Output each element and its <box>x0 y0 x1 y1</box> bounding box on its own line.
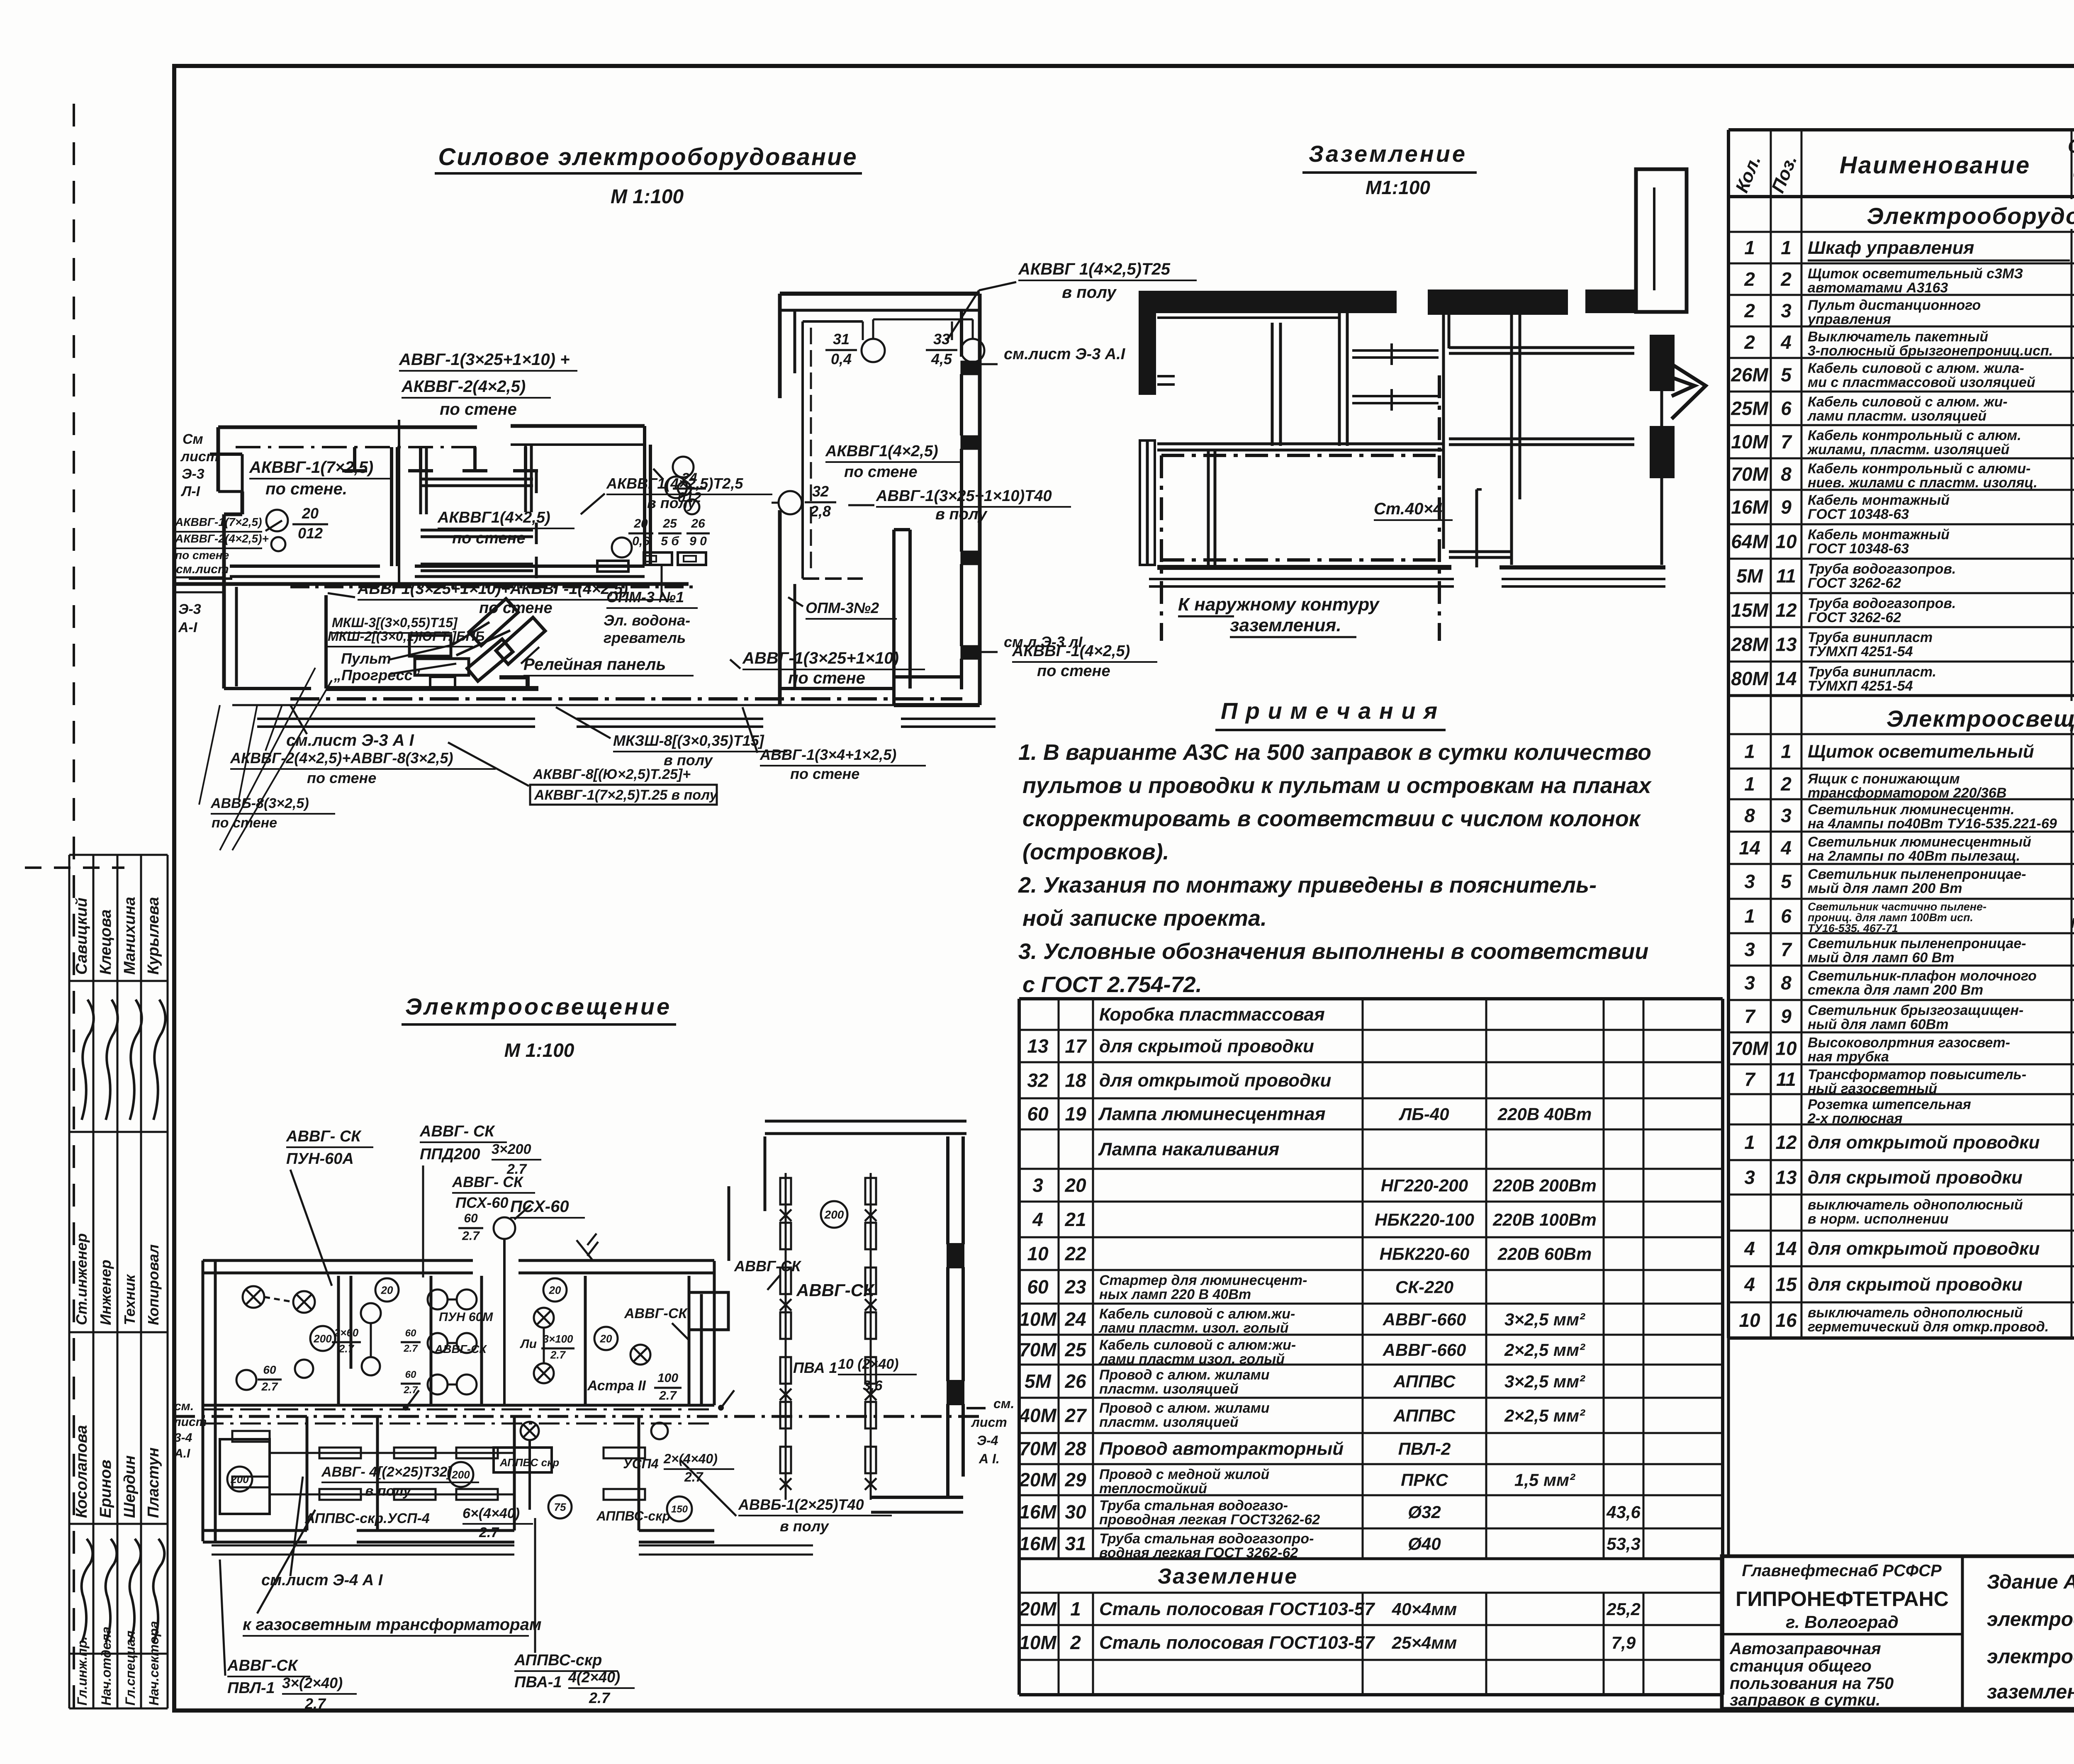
svg-text:в полу: в полу <box>365 1483 412 1499</box>
svg-text:Светильник-плафон молочного: Светильник-плафон молочного <box>1808 968 2037 984</box>
svg-text:ЛБ-40: ЛБ-40 <box>1398 1105 1449 1124</box>
plan3 building walls left section <box>203 1260 813 1555</box>
svg-text:Автозаправочная: Автозаправочная <box>1729 1640 1881 1658</box>
plan2 top wall bands <box>1140 291 1636 318</box>
svg-text:7: 7 <box>1781 939 1792 960</box>
plan1 label ОПМ-3 N1 / Эл водонагреватель <box>604 564 698 646</box>
svg-text:заправок в сутки.: заправок в сутки. <box>1730 1691 1880 1709</box>
svg-text:АППВС-скр: АППВС-скр <box>514 1652 602 1669</box>
svg-text:1: 1 <box>1744 773 1755 795</box>
stamp job titles bottom <box>75 1621 161 1706</box>
svg-text:по стене: по стене <box>307 769 376 786</box>
svg-text:3-полюсный брызгонепрониц.исп.: 3-полюсный брызгонепрониц.исп. <box>1808 343 2053 359</box>
svg-text:Лампа люминесцентная: Лампа люминесцентная <box>1098 1104 1326 1124</box>
plan1 wiring inside right room <box>803 321 952 579</box>
plan3 lamp 200 circle right room <box>821 1201 847 1228</box>
svg-text:герметический для откр.прово: герметический для откр.провод. <box>1808 1319 2049 1335</box>
svg-text:см.: см. <box>174 1399 194 1413</box>
title block: station description <box>1729 1640 1894 1709</box>
plan1 label АКВВГ-1(4х2,5) по стене right lower <box>1012 642 1157 680</box>
svg-text:теплостойкий: теплостойкий <box>1099 1481 1207 1496</box>
svg-text:1: 1 <box>1744 1131 1755 1153</box>
svg-text:3×2,5 мм²: 3×2,5 мм² <box>1504 1372 1585 1391</box>
svg-text:АВВГ- СК: АВВГ- СК <box>419 1123 495 1140</box>
plan3 room2 lamps <box>332 1278 399 1375</box>
svg-text:2: 2 <box>1780 773 1792 795</box>
plan3 wiring channel dash-dot lines <box>174 1408 986 1423</box>
svg-text:28: 28 <box>1064 1438 1086 1460</box>
svg-text:в полу: в полу <box>664 752 713 769</box>
svg-text:10: 10 <box>1027 1243 1049 1265</box>
svg-text:ГОСТ 10348-63: ГОСТ 10348-63 <box>1808 506 1909 522</box>
svg-text:Нач.сектора: Нач.сектора <box>146 1621 161 1706</box>
svg-text:АВВГ-1(3×25+1×10) +: АВВГ-1(3×25+1×10) + <box>399 350 570 369</box>
svg-text:АВВГ-СК: АВВГ-СК <box>434 1343 487 1355</box>
svg-text:см.лист Э-3 А.I: см.лист Э-3 А.I <box>1004 346 1126 363</box>
plan1 right section top wall <box>780 294 980 398</box>
svg-text:1. В варианте АЗС на 500 запра: 1. В варианте АЗС на 500 заправок в сутк… <box>1018 740 1651 765</box>
svg-text:АВВГ- СК: АВВГ- СК <box>286 1128 362 1145</box>
svg-text:012: 012 <box>298 525 323 542</box>
svg-text:70М: 70М <box>1019 1438 1057 1460</box>
plan1 label см.лист Э-3 А.I right <box>966 346 1126 364</box>
svg-text:трансформатором 220/36В: трансформатором 220/36В <box>1808 785 2006 801</box>
title: Заземление <box>1302 141 1477 198</box>
svg-text:водная легкая ГОСТ 3262-62: водная легкая ГОСТ 3262-62 <box>1099 1545 1298 1561</box>
svg-text:24: 24 <box>1064 1309 1086 1330</box>
svg-text:200: 200 <box>451 1468 470 1481</box>
svg-text:Астра II: Астра II <box>587 1378 646 1394</box>
svg-text:по стене: по стене <box>175 549 229 562</box>
svg-text:Кабель монтажный: Кабель монтажный <box>1808 527 1950 543</box>
plan2 label Ст.40х4 <box>1374 500 1453 520</box>
svg-text:АВВГ-СК: АВВГ-СК <box>227 1657 299 1674</box>
svg-text:Техник: Техник <box>121 1274 138 1325</box>
svg-text:Савицкий: Савицкий <box>73 898 90 975</box>
svg-text:Труба водогазопров.: Труба водогазопров. <box>1808 596 1956 611</box>
right table header texts <box>1732 131 2074 199</box>
svg-text:8: 8 <box>1781 463 1792 485</box>
plan3 room1 lamps <box>236 1286 335 1393</box>
svg-text:25,2: 25,2 <box>1606 1599 1641 1619</box>
svg-text:10М: 10М <box>1731 431 1769 453</box>
svg-text:21: 21 <box>1064 1209 1086 1230</box>
svg-text:по стене: по стене <box>790 765 859 782</box>
svg-text:ППД200: ППД200 <box>420 1146 480 1163</box>
svg-text:АППВС: АППВС <box>1393 1406 1456 1426</box>
svg-text:Труба водогазопров.: Труба водогазопров. <box>1808 561 1956 577</box>
svg-text:НБК220-60: НБК220-60 <box>1380 1244 1470 1264</box>
plan1 label АКВВГ-2+АВВГ-8 по стене <box>230 749 496 786</box>
svg-text:ниев. жилами с пластм. изоляц.: ниев. жилами с пластм. изоляц. <box>1808 475 2037 491</box>
svg-text:Ст.40×4: Ст.40×4 <box>1374 500 1442 518</box>
svg-text:26М: 26М <box>1731 364 1769 386</box>
svg-text:1: 1 <box>1781 237 1792 258</box>
svg-text:г. Волгоград: г. Волгоград <box>1786 1612 1899 1632</box>
svg-text:УСП4: УСП4 <box>623 1456 659 1471</box>
svg-text:Еринов: Еринов <box>97 1460 114 1518</box>
svg-text:ГИПРОНЕФТЕТРАНС: ГИПРОНЕФТЕТРАНС <box>1736 1587 1949 1611</box>
plan1 leader slant lines lower left <box>199 668 332 850</box>
svg-text:Электрооборудование: Электрооборудование <box>1867 203 2074 229</box>
svg-text:Кабель силовой с алюм:жи-: Кабель силовой с алюм:жи- <box>1099 1337 1296 1353</box>
svg-text:Кабель силовой с алюм. жи-: Кабель силовой с алюм. жи- <box>1808 394 2008 410</box>
svg-text:2: 2 <box>1780 268 1792 290</box>
plan3 label ПВА1 fraction right room <box>793 1356 917 1394</box>
svg-text:АКВВГ-2(4×2,5)+: АКВВГ-2(4×2,5)+ <box>175 532 269 545</box>
svg-text:см.л.Э-3 лI: см.л.Э-3 лI <box>1004 633 1083 650</box>
svg-text:Ли: Ли <box>520 1337 537 1351</box>
svg-text:по стене: по стене <box>1037 662 1110 680</box>
svg-text:проводная легкая ГОСТ3262-62: проводная легкая ГОСТ3262-62 <box>1099 1512 1320 1528</box>
svg-text:Сталь полосовая ГОСТ103-57: Сталь полосовая ГОСТ103-57 <box>1099 1599 1375 1619</box>
svg-text:13: 13 <box>1027 1035 1049 1057</box>
svg-text:Щиток осветительный: Щиток осветительный <box>1808 742 2034 762</box>
plan2 right rooms horizontals <box>1449 348 1634 557</box>
svg-text:60: 60 <box>263 1363 276 1376</box>
svg-text:7: 7 <box>1744 1068 1756 1090</box>
svg-text:ОПМ-3№2: ОПМ-3№2 <box>806 599 879 616</box>
svg-text:А.I: А.I <box>174 1447 190 1460</box>
plan1 label АКВВГ1(4х2,5)Т25 в полу top-right leader <box>947 260 1197 341</box>
plan1 label ОПМ-3 N2 <box>788 597 897 619</box>
svg-text:Э-3: Э-3 <box>178 601 201 617</box>
svg-text:АКВВГ 1(4×2,5)Т25: АКВВГ 1(4×2,5)Т25 <box>1018 260 1171 278</box>
svg-text:К наружному контуру: К наружному контуру <box>1178 594 1380 615</box>
middle specification table grid <box>1019 999 1723 1695</box>
plan3 middle bottom room <box>494 1422 572 1518</box>
svg-text:Труба стальная водогазопро-: Труба стальная водогазопро- <box>1099 1531 1314 1547</box>
svg-text:Клецова: Клецова <box>97 909 114 975</box>
svg-text:53,3: 53,3 <box>1607 1534 1641 1554</box>
svg-text:Провод автотракторный: Провод автотракторный <box>1099 1439 1344 1459</box>
svg-text:Кабель монтажный: Кабель монтажный <box>1808 492 1950 508</box>
svg-text:3×200: 3×200 <box>492 1141 531 1157</box>
section header Электроосвещение <box>1833 701 2074 732</box>
svg-text:75: 75 <box>554 1501 566 1513</box>
svg-text:стекла для ламп 200 Вт: стекла для ламп 200 Вт <box>1808 982 1983 998</box>
right table rows: Электрооборудование items 1-14 <box>1731 237 2074 694</box>
svg-text:автоматами А3163: автоматами А3163 <box>1808 280 1948 296</box>
plan3 right bottom room fixtures <box>596 1423 734 1523</box>
svg-text:ПУН-60А: ПУН-60А <box>286 1150 354 1168</box>
svg-text:6: 6 <box>1781 398 1792 419</box>
svg-text:АКВВГ-2(4×2,5): АКВВГ-2(4×2,5) <box>401 377 526 396</box>
svg-text:4: 4 <box>1744 1238 1755 1259</box>
svg-text:Провод с алюм. жилами: Провод с алюм. жилами <box>1099 1367 1270 1383</box>
svg-text:28М: 28М <box>1731 634 1769 655</box>
svg-text:Розетка штепсельная: Розетка штепсельная <box>1808 1097 1971 1112</box>
svg-text:АППВС скр: АППВС скр <box>499 1456 559 1469</box>
plan1 right inner wall of left section <box>645 426 650 566</box>
svg-text:Э-4: Э-4 <box>977 1433 998 1448</box>
svg-text:ПСХ-60: ПСХ-60 <box>455 1194 508 1211</box>
stamp signatures scribbles 2 <box>82 1539 165 1642</box>
svg-text:ПРКС: ПРКС <box>1401 1470 1448 1490</box>
plan1 motor circle 24/012 <box>673 457 706 505</box>
plan1 thick cable elbow from dispensers <box>499 677 528 689</box>
svg-text:ПВЛ-2: ПВЛ-2 <box>1398 1439 1451 1459</box>
svg-text:Э-3: Э-3 <box>182 466 204 482</box>
svg-text:ПВА-1: ПВА-1 <box>514 1674 562 1691</box>
svg-text:25М: 25М <box>1731 398 1769 419</box>
svg-text:20: 20 <box>600 1332 612 1345</box>
svg-text:СК-220: СК-220 <box>1395 1277 1453 1297</box>
svg-text:4: 4 <box>1744 1274 1755 1295</box>
svg-text:4: 4 <box>1780 331 1792 353</box>
svg-text:2,8: 2,8 <box>810 503 831 520</box>
svg-text:2×60: 2×60 <box>334 1326 359 1339</box>
svg-text:выключатель однополюсный: выключатель однополюсный <box>1808 1197 2023 1213</box>
plan2 dimension к наружному контуру заземления <box>1178 594 1380 637</box>
plan1 motor 32 right room <box>772 483 836 520</box>
svg-text:НГ220-200: НГ220-200 <box>1381 1176 1468 1195</box>
svg-text:10: 10 <box>1775 1038 1797 1059</box>
svg-text:2-х полюсная: 2-х полюсная <box>1807 1111 1903 1127</box>
plan3 bottom leaders <box>243 1477 541 1636</box>
svg-text:2: 2 <box>1744 268 1755 290</box>
left stamp column grid <box>69 855 168 1708</box>
plan1 labels МКШ pair <box>328 615 484 647</box>
plan2 left wall band <box>1140 292 1175 565</box>
svg-text:греватель: греватель <box>604 629 686 646</box>
svg-text:4: 4 <box>1032 1209 1043 1230</box>
svg-text:Гл.специал.: Гл.специал. <box>123 1627 138 1706</box>
plan3 label АВВГ-СК ПВЛ-1 bottom left <box>220 1560 357 1712</box>
right table rows: Электроосвещение items 1-16 <box>1731 741 2074 1335</box>
svg-text:2.7: 2.7 <box>261 1380 278 1393</box>
plan1 right section left/bottom walls <box>780 510 996 727</box>
plan2 break symbol to table <box>1672 364 1706 419</box>
svg-text:ных ламп 220 В 40Вт: ных ламп 220 В 40Вт <box>1099 1287 1251 1302</box>
svg-text:ГОСТ 3262-62: ГОСТ 3262-62 <box>1808 610 1901 625</box>
plan1 label Релейная панель <box>521 647 694 676</box>
plan1 label АВВГ-1(3x25+1x10)Т40 в полу <box>848 487 1071 523</box>
svg-text:17: 17 <box>1065 1035 1087 1057</box>
svg-text:20: 20 <box>302 505 319 522</box>
stamp signatures names top <box>73 897 162 975</box>
title: Электроосвещение <box>402 993 676 1061</box>
svg-text:АППВС-скр.УСП-4: АППВС-скр.УСП-4 <box>304 1511 430 1526</box>
title block frame <box>1722 1556 2074 1709</box>
svg-text:ми с пластмассовой изоляцией: ми с пластмассовой изоляцией <box>1808 375 2035 390</box>
plan1 label АКВВГ1(4х2,5) по стене right room <box>825 443 962 481</box>
svg-text:М1:100: М1:100 <box>1366 177 1430 198</box>
plan1 boxed label АКВВГ-8 <box>448 742 718 805</box>
svg-text:80М: 80М <box>1731 668 1769 689</box>
svg-text:АКВВГ1(4×2,5): АКВВГ1(4×2,5) <box>437 509 550 526</box>
svg-text:Шкаф управления: Шкаф управления <box>1808 238 1974 258</box>
svg-text:7: 7 <box>1781 431 1792 453</box>
svg-text:см.лист Э-3 А I: см.лист Э-3 А I <box>286 731 414 749</box>
svg-text:НБК220-100: НБК220-100 <box>1375 1210 1474 1229</box>
plan1 relay panel boxes <box>409 635 469 688</box>
svg-text:на 4лампы по40Вт ТУ16-535.221-: на 4лампы по40Вт ТУ16-535.221-69 <box>1808 816 2057 832</box>
plan1 labels: см лист Э-3 Л-I top left <box>180 431 242 499</box>
plan3 label АППВС скр УСП-4 <box>304 1506 533 1540</box>
svg-text:Электроосвещение: Электроосвещение <box>405 993 672 1019</box>
plan3 label АВВБ-1 в полу <box>680 1460 892 1535</box>
svg-text:АВВБ-1(2×25)Т40: АВВБ-1(2×25)Т40 <box>738 1496 864 1513</box>
svg-text:лами пластм. изоляцией: лами пластм. изоляцией <box>1807 408 1986 424</box>
stamp signatures scribbles 1 <box>82 1000 166 1120</box>
plan1 label АВВГ+АКВВГ по стене (in pump room) <box>328 580 673 617</box>
svg-text:13: 13 <box>1775 634 1797 655</box>
svg-text:см.лист: см.лист <box>176 562 229 576</box>
svg-text:Светильник брызгозащищен-: Светильник брызгозащищен- <box>1808 1002 2023 1018</box>
svg-text:Ст.инженер: Ст.инженер <box>73 1233 90 1325</box>
svg-text:12: 12 <box>1775 1131 1797 1153</box>
svg-text:20М: 20М <box>1019 1598 1057 1620</box>
svg-text:См: См <box>183 431 203 447</box>
svg-text:220В 200Вт: 220В 200Вт <box>1492 1176 1597 1195</box>
svg-text:70М: 70М <box>1731 463 1769 485</box>
svg-text:ной записке проекта.: ной записке проекта. <box>1022 906 1267 931</box>
svg-text:20: 20 <box>633 517 648 530</box>
svg-text:АВВГ-СК: АВВГ-СК <box>624 1306 688 1321</box>
svg-text:2.7: 2.7 <box>462 1229 480 1243</box>
svg-text:Коробка пластмассовая: Коробка пластмассовая <box>1099 1005 1325 1025</box>
plan1 pump room walls <box>224 595 538 689</box>
svg-text:АВВГ-1(3×25+1×10)Т40: АВВГ-1(3×25+1×10)Т40 <box>876 487 1052 505</box>
svg-text:пластм. изоляцией: пластм. изоляцией <box>1099 1381 1239 1397</box>
svg-text:2.7: 2.7 <box>550 1349 566 1361</box>
svg-text:64М: 64М <box>1731 531 1769 552</box>
svg-text:АППВС-скр: АППВС-скр <box>596 1509 670 1523</box>
plan2 bottom walls and footings <box>1149 489 1665 586</box>
plan1 water heater with fuse fractions <box>597 517 710 572</box>
svg-text:ПВЛ-1: ПВЛ-1 <box>227 1679 275 1697</box>
svg-text:16М: 16М <box>1019 1533 1057 1555</box>
plan1 left margin см лист box <box>174 562 229 635</box>
svg-text:Кабель контрольный с алюми-: Кабель контрольный с алюми- <box>1808 461 2030 477</box>
svg-text:АКВВГ-1(7×2,5)Т.25 в полу: АКВВГ-1(7×2,5)Т.25 в полу <box>534 787 718 803</box>
svg-text:АКВВГ-8[(Ю×2,5)Т.25]+: АКВВГ-8[(Ю×2,5)Т.25]+ <box>533 766 691 782</box>
svg-text:лист: лист <box>180 449 219 465</box>
svg-text:3×2,5 мм²: 3×2,5 мм² <box>1504 1310 1585 1329</box>
svg-text:Эл. водона-: Эл. водона- <box>604 612 690 629</box>
svg-text:по стене: по стене <box>788 669 865 687</box>
plan3 room4 lamps <box>520 1278 574 1383</box>
plan1 motors 31 33 in right room <box>825 319 984 367</box>
plan3 long fixture rows <box>270 1448 514 1500</box>
svg-text:27: 27 <box>1064 1405 1087 1426</box>
svg-text:25: 25 <box>1064 1339 1087 1360</box>
plan3 psx-60 lamp above wall <box>458 1197 585 1405</box>
plan1 label см.лист Э-3 А I bottom <box>286 705 414 749</box>
title block: issuing organization <box>1736 1562 1949 1632</box>
svg-text:4: 4 <box>1780 837 1792 859</box>
plan1 label АКВВГ-1(7х2,5) по стене <box>249 458 390 498</box>
svg-text:30: 30 <box>1065 1501 1086 1523</box>
svg-text:2×2,5 мм²: 2×2,5 мм² <box>1504 1340 1585 1360</box>
svg-text:МКШ-3[(3×0,55)Т15]: МКШ-3[(3×0,55)Т15] <box>332 615 458 630</box>
svg-text:М 1:100: М 1:100 <box>504 1039 574 1061</box>
svg-text:2.7: 2.7 <box>684 1470 704 1484</box>
notes heading Примечания <box>1215 698 1446 730</box>
svg-text:6: 6 <box>1781 905 1792 927</box>
plan3 bottom-left room fixtures <box>220 1431 270 1514</box>
svg-text:40×4мм: 40×4мм <box>1392 1599 1457 1619</box>
svg-text:ГОСТ 3262-62: ГОСТ 3262-62 <box>1808 575 1901 591</box>
svg-text:Светильник пыленепроницае-: Светильник пыленепроницае- <box>1808 866 2026 882</box>
svg-text:Стартер для люминесцент-: Стартер для люминесцент- <box>1099 1273 1307 1288</box>
svg-text:ный газосветный: ный газосветный <box>1808 1081 1937 1097</box>
svg-text:25: 25 <box>662 517 677 530</box>
svg-text:19: 19 <box>1065 1103 1086 1125</box>
svg-text:70М: 70М <box>1019 1339 1057 1360</box>
svg-text:станция общего: станция общего <box>1730 1657 1872 1675</box>
svg-text:Кол.: Кол. <box>1732 153 1765 196</box>
svg-text:3: 3 <box>1744 1167 1755 1188</box>
svg-text:АВВГ-1(3×4+1×2,5): АВВГ-1(3×4+1×2,5) <box>759 746 896 763</box>
svg-text:1: 1 <box>1744 905 1755 927</box>
plan1 label АКВВГ1(4х2,5)Т2,5 в полу mid <box>581 475 772 514</box>
svg-text:М 1:100: М 1:100 <box>611 186 684 208</box>
svg-text:43,6: 43,6 <box>1606 1502 1641 1522</box>
svg-text:10 (2×40): 10 (2×40) <box>838 1356 899 1372</box>
svg-text:Наименование: Наименование <box>1840 152 2030 179</box>
svg-text:электрооборудование,: электрооборудование, <box>1987 1608 2074 1630</box>
svg-text:Ящик с понижающим: Ящик с понижающим <box>1807 771 1960 787</box>
svg-text:3: 3 <box>1744 939 1755 960</box>
svg-text:5 б: 5 б <box>661 535 679 548</box>
svg-text:3. Условные обозначения выпо: 3. Условные обозначения выполнены в соот… <box>1018 939 1648 964</box>
svg-text:АВВГ-СК: АВВГ-СК <box>734 1258 802 1275</box>
svg-text:заземления.: заземления. <box>1230 615 1341 635</box>
svg-text:9: 9 <box>1781 496 1792 518</box>
svg-text:пластм. изоляцией: пластм. изоляцией <box>1099 1414 1239 1430</box>
plan3 room3 paired lamp fixtures <box>401 1290 493 1396</box>
svg-text:Светильник пыленепроницае-: Светильник пыленепроницае- <box>1808 936 2026 951</box>
svg-text:для открытой проводки: для открытой проводки <box>1808 1132 2040 1153</box>
svg-text:16: 16 <box>1775 1309 1797 1331</box>
svg-text:в полу: в полу <box>935 506 988 523</box>
svg-text:3: 3 <box>1744 871 1755 892</box>
title: Силовое электрооборудование <box>435 144 862 208</box>
svg-text:2.7: 2.7 <box>403 1343 418 1354</box>
svg-text:200: 200 <box>230 1473 249 1485</box>
svg-text:Труба винипласт: Труба винипласт <box>1808 630 1933 645</box>
svg-text:60: 60 <box>1027 1103 1049 1125</box>
plan1 left margin 3-line label <box>175 516 282 562</box>
svg-text:13: 13 <box>1775 1167 1797 1188</box>
plan3 label АВВГ-СК astra room top <box>734 1258 802 1290</box>
plan1 leader АВВГ top (vertical drop) <box>399 350 577 584</box>
svg-text:Косолапова: Косолапова <box>73 1425 90 1518</box>
svg-text:Курылева: Курылева <box>145 897 162 975</box>
plan3 см лист Э-4 labels <box>173 1396 1014 1466</box>
svg-text:Труба винипласт.: Труба винипласт. <box>1808 664 1936 680</box>
svg-text:АВВГ- СК: АВВГ- СК <box>452 1173 524 1190</box>
svg-text:по стене: по стене <box>440 400 517 418</box>
svg-text:1: 1 <box>1781 741 1792 762</box>
plan2 chimney duct top right <box>1636 169 1687 312</box>
svg-text:для открытой проводки: для открытой проводки <box>1099 1071 1331 1091</box>
svg-text:11: 11 <box>1776 1068 1796 1090</box>
plan3 label АВВГ-СК right room <box>796 1280 875 1300</box>
svg-text:Пульт: Пульт <box>341 650 391 667</box>
svg-text:выключатель однополюсный: выключатель однополюсный <box>1808 1305 2023 1321</box>
svg-text:Выключатель пакетный: Выключатель пакетный <box>1808 329 1988 345</box>
svg-text:9 0: 9 0 <box>689 535 707 548</box>
svg-text:„Прогресс”: „Прогресс” <box>333 667 420 684</box>
svg-text:Л-I: Л-I <box>180 484 201 499</box>
svg-text:Инженер: Инженер <box>97 1260 114 1325</box>
svg-text:20: 20 <box>1064 1175 1086 1196</box>
svg-text:П р и м е ч а н и я: П р и м е ч а н и я <box>1221 698 1438 724</box>
svg-text:для скрытой проводки: для скрытой проводки <box>1099 1036 1314 1056</box>
